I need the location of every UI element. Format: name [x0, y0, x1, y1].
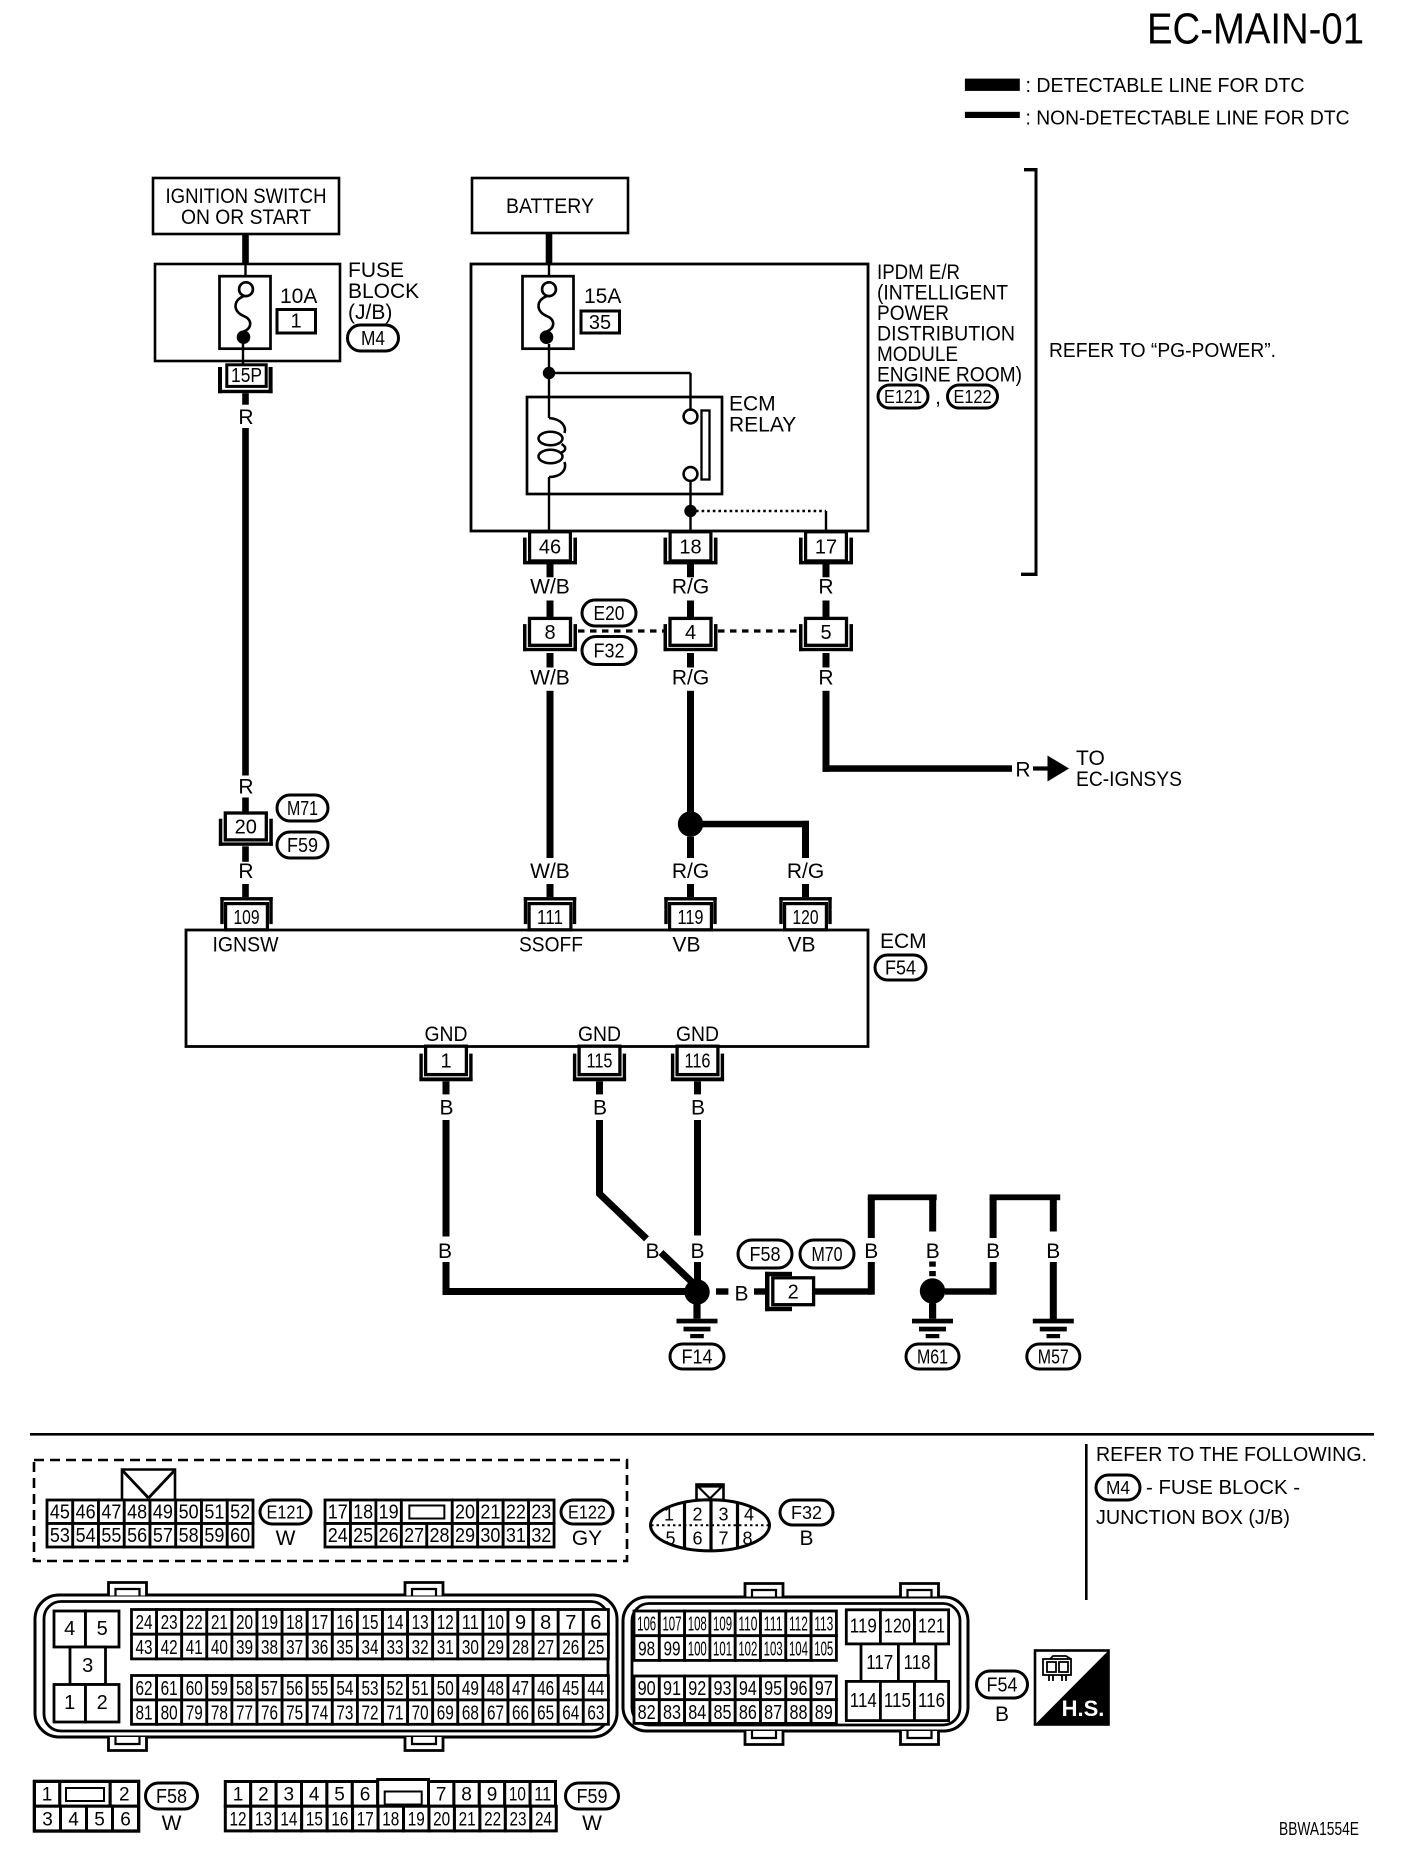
- wire loop2 right leg lower: [1050, 1262, 1057, 1319]
- svg-text:W/B: W/B: [530, 667, 570, 690]
- label GND 116: [676, 1023, 719, 1046]
- svg-text:H.S.: H.S.: [1062, 1696, 1105, 1721]
- wire R/G stub4b: [802, 884, 809, 897]
- svg-text:22: 22: [484, 1809, 501, 1830]
- svg-text:B: B: [734, 1283, 748, 1306]
- svg-text:6: 6: [360, 1785, 371, 1806]
- svg-text:F32: F32: [791, 1503, 822, 1523]
- svg-text:34: 34: [361, 1637, 378, 1659]
- svg-text:14: 14: [280, 1809, 297, 1830]
- svg-text:B: B: [690, 1240, 704, 1263]
- wire B 115 diagonal lower: [661, 1253, 695, 1286]
- label R/G row1: [672, 576, 709, 599]
- svg-text:39: 39: [236, 1637, 253, 1659]
- svg-text:17: 17: [311, 1612, 328, 1634]
- wire R stub3: [823, 653, 830, 668]
- legend detectable text: [1026, 75, 1305, 97]
- fuse 10A: [220, 276, 271, 349]
- svg-text:107: 107: [662, 1614, 681, 1636]
- svg-text:B: B: [799, 1527, 813, 1550]
- svg-text:23: 23: [531, 1501, 551, 1523]
- label FUSE BLOCK dash: [1146, 1477, 1300, 1499]
- svg-text:B: B: [926, 1240, 940, 1263]
- junction dot battery feed: [543, 367, 555, 379]
- svg-text:B: B: [438, 1240, 452, 1263]
- svg-text:97: 97: [815, 1678, 833, 1700]
- wire loop2 left leg lower: [990, 1262, 997, 1295]
- svg-text:15P: 15P: [231, 365, 262, 387]
- svg-text:59: 59: [211, 1678, 228, 1700]
- svg-text:21: 21: [459, 1809, 476, 1830]
- svg-text:50: 50: [179, 1501, 199, 1523]
- fuse number 35 box: [581, 311, 620, 334]
- connector id E122 oval: [948, 385, 998, 408]
- label 15A: [584, 285, 621, 308]
- svg-text:105: 105: [814, 1638, 833, 1660]
- svg-text:77: 77: [236, 1702, 253, 1724]
- junction dot R/G: [678, 811, 703, 836]
- label B loop1 right: [926, 1240, 940, 1263]
- label R: [238, 406, 253, 429]
- svg-text:M61: M61: [917, 1347, 948, 1369]
- svg-text:2: 2: [692, 1505, 702, 1525]
- wire ignition to fuse block: [242, 234, 249, 264]
- svg-text:94: 94: [739, 1678, 757, 1700]
- svg-text:100: 100: [688, 1638, 707, 1660]
- refer bracket: [1021, 168, 1038, 576]
- connector id E121 oval: [878, 385, 928, 408]
- svg-text:: NON-DETECTABLE LINE FOR DTC: : NON-DETECTABLE LINE FOR DTC: [1026, 108, 1350, 130]
- wire loop2 left leg upper: [990, 1197, 997, 1238]
- svg-text:E121: E121: [884, 387, 922, 407]
- svg-text:B: B: [986, 1240, 1000, 1263]
- svg-text:31: 31: [506, 1525, 526, 1547]
- svg-text:73: 73: [336, 1702, 353, 1724]
- svg-text:EC-MAIN-01: EC-MAIN-01: [1147, 5, 1364, 54]
- svg-text:47: 47: [101, 1501, 121, 1523]
- svg-text:109: 109: [234, 907, 260, 929]
- svg-text:115: 115: [587, 1051, 613, 1073]
- junction dot ground M61: [920, 1278, 945, 1303]
- svg-text:ENGINE ROOM): ENGINE ROOM): [877, 364, 1022, 387]
- wire R/G stub1: [687, 564, 694, 578]
- svg-text:10: 10: [509, 1785, 526, 1806]
- svg-text:F59: F59: [287, 835, 318, 857]
- svg-text:5: 5: [334, 1785, 345, 1806]
- svg-text:76: 76: [261, 1702, 278, 1724]
- wire loop1 right leg: [929, 1200, 936, 1232]
- svg-text:106: 106: [637, 1614, 656, 1636]
- wire R stub above 109: [242, 884, 249, 897]
- svg-text:120: 120: [793, 907, 819, 929]
- wire coil to pin 46: [548, 477, 550, 531]
- wire R horizontal to EC-IGNSYS: [823, 765, 1013, 772]
- pin 111: [524, 897, 576, 930]
- svg-text:19: 19: [261, 1612, 278, 1634]
- svg-text:55: 55: [101, 1525, 121, 1547]
- svg-text:GND: GND: [676, 1023, 719, 1046]
- svg-text:22: 22: [506, 1501, 526, 1523]
- svg-text:80: 80: [161, 1702, 178, 1724]
- svg-text:50: 50: [437, 1678, 454, 1700]
- svg-text:R/G: R/G: [672, 576, 709, 599]
- svg-text:29: 29: [455, 1525, 475, 1547]
- pin 120: [779, 897, 831, 930]
- svg-text:23: 23: [510, 1809, 527, 1830]
- connector id M57 oval: [1027, 1344, 1080, 1369]
- svg-text:VB: VB: [787, 934, 815, 957]
- wire R stub below 15P: [242, 393, 249, 405]
- svg-text:ECM: ECM: [729, 393, 776, 416]
- ECM box: [186, 930, 868, 1047]
- svg-text:REFER TO THE FOLLOWING.: REFER TO THE FOLLOWING.: [1096, 1444, 1367, 1466]
- svg-text:4: 4: [68, 1809, 79, 1830]
- svg-text:8: 8: [742, 1529, 752, 1549]
- svg-text:15A: 15A: [584, 285, 621, 308]
- label B loop2 right: [1046, 1240, 1060, 1263]
- wire B stub 1: [443, 1081, 450, 1094]
- fuse block J/B box: [155, 264, 340, 361]
- wire R/G to junction: [687, 691, 694, 817]
- svg-text:18: 18: [353, 1501, 373, 1523]
- svg-text:18: 18: [286, 1612, 303, 1634]
- svg-text:113: 113: [814, 1614, 833, 1636]
- svg-text:27: 27: [404, 1525, 424, 1547]
- svg-text:8: 8: [540, 1612, 551, 1634]
- label W F59: [582, 1812, 602, 1835]
- svg-text:26: 26: [562, 1637, 579, 1659]
- label ECM: [880, 930, 927, 953]
- wire B 1 vertical: [443, 1120, 450, 1237]
- ECM relay box: [527, 397, 722, 494]
- svg-text:9: 9: [515, 1612, 526, 1634]
- svg-text:36: 36: [311, 1637, 328, 1659]
- svg-text:19: 19: [379, 1501, 399, 1523]
- svg-text:111: 111: [764, 1614, 783, 1636]
- svg-text:R/G: R/G: [672, 667, 709, 690]
- connector id F59 oval: [277, 832, 328, 858]
- label R row1: [818, 576, 833, 599]
- svg-text:12: 12: [437, 1612, 454, 1634]
- svg-text:R: R: [1015, 759, 1030, 782]
- IPDM E/R box: [471, 264, 868, 531]
- svg-text:119: 119: [678, 907, 704, 929]
- wire R/G below junction: [687, 837, 694, 858]
- svg-text:49: 49: [462, 1678, 479, 1700]
- svg-text:28: 28: [512, 1637, 529, 1659]
- label VB 119: [672, 934, 700, 957]
- svg-text:IGNSW: IGNSW: [213, 934, 279, 957]
- wire R/G branch horizontal: [691, 821, 810, 828]
- wire into fuse 10A: [244, 264, 246, 283]
- svg-text:M71: M71: [287, 798, 318, 820]
- label R/G row3b: [787, 860, 824, 883]
- svg-text:E122: E122: [954, 387, 992, 407]
- connector id F58 oval bottom: [146, 1783, 198, 1809]
- svg-text:26: 26: [379, 1525, 399, 1547]
- svg-text:M57: M57: [1038, 1347, 1069, 1369]
- svg-text:24: 24: [136, 1612, 153, 1634]
- label IGNSW: [213, 934, 279, 957]
- svg-text:40: 40: [211, 1637, 228, 1659]
- relay armature bar: [702, 411, 710, 480]
- connector E121 key: [122, 1470, 175, 1501]
- svg-text:17: 17: [357, 1809, 374, 1830]
- label R above 109: [238, 860, 253, 883]
- ECM connector grid left upper: [132, 1610, 609, 1659]
- svg-text:F59: F59: [577, 1786, 608, 1808]
- svg-text:TO: TO: [1076, 747, 1105, 770]
- svg-text:58: 58: [236, 1678, 253, 1700]
- svg-text:46: 46: [539, 537, 561, 559]
- label B loop2 left: [986, 1240, 1000, 1263]
- relay coil: [539, 418, 566, 477]
- connector E121 pin grid: [47, 1500, 253, 1547]
- relay contact circles: [684, 410, 698, 481]
- label B col116: [691, 1097, 705, 1120]
- svg-text:10: 10: [487, 1612, 504, 1634]
- svg-text:45: 45: [562, 1678, 579, 1700]
- label R at arrow: [1015, 759, 1030, 782]
- svg-text:46: 46: [537, 1678, 554, 1700]
- connector F59 grid: [225, 1780, 556, 1831]
- connector id E121 oval bottom: [260, 1500, 311, 1524]
- label B col116 low: [690, 1240, 704, 1263]
- svg-text:57: 57: [261, 1678, 278, 1700]
- svg-text:R/G: R/G: [672, 860, 709, 883]
- svg-text:67: 67: [487, 1702, 504, 1724]
- wire W/B stub2: [547, 601, 554, 619]
- wire R/G stub2: [687, 601, 694, 619]
- wire B stub 115: [596, 1081, 603, 1094]
- wire R stub2: [823, 601, 830, 619]
- svg-text:55: 55: [311, 1678, 328, 1700]
- svg-text:W: W: [582, 1812, 602, 1835]
- connector id F58 oval: [738, 1240, 792, 1268]
- svg-text:75: 75: [286, 1702, 303, 1724]
- svg-text:121: 121: [918, 1616, 945, 1638]
- label W/B row1: [530, 576, 570, 599]
- svg-text:53: 53: [50, 1525, 70, 1547]
- svg-text:FUSE: FUSE: [348, 259, 404, 282]
- svg-text:13: 13: [255, 1809, 272, 1830]
- svg-text:8: 8: [461, 1785, 472, 1806]
- ECM connector outer shell left: [35, 1595, 617, 1737]
- svg-text:10A: 10A: [280, 285, 317, 308]
- svg-text:91: 91: [663, 1678, 681, 1700]
- svg-text:6: 6: [120, 1809, 131, 1830]
- wire fuse 15A to relay coil: [548, 344, 550, 418]
- svg-text:35: 35: [336, 1637, 353, 1659]
- ECM connector grid right upper: [634, 1611, 836, 1660]
- svg-text:111: 111: [537, 907, 563, 929]
- wire R stub1: [823, 564, 830, 578]
- svg-text:52: 52: [230, 1501, 250, 1523]
- dotted wire to pin 17: [696, 511, 826, 531]
- label VB 120: [787, 934, 815, 957]
- pin 18: [664, 532, 718, 565]
- svg-text:37: 37: [286, 1637, 303, 1659]
- wire W/B stub3: [547, 653, 554, 668]
- svg-text:35: 35: [589, 312, 611, 334]
- svg-text:W: W: [276, 1527, 296, 1550]
- svg-text:23: 23: [161, 1612, 178, 1634]
- connector id M61 oval: [906, 1344, 959, 1369]
- svg-text:16: 16: [336, 1612, 353, 1634]
- svg-text:27: 27: [537, 1637, 554, 1659]
- connector 2: [765, 1272, 814, 1311]
- svg-text:4: 4: [64, 1618, 75, 1640]
- ECM connector bottom tabs: [109, 1731, 939, 1751]
- svg-text:ON OR START: ON OR START: [181, 206, 311, 229]
- svg-text:11: 11: [534, 1785, 551, 1806]
- svg-text:120: 120: [884, 1616, 911, 1638]
- svg-text:85: 85: [714, 1702, 732, 1724]
- svg-text:114: 114: [850, 1690, 877, 1712]
- svg-text:47: 47: [512, 1678, 529, 1700]
- svg-text:F54: F54: [987, 1675, 1018, 1697]
- connector id F32 oval: [582, 637, 636, 665]
- connector F32 key: [697, 1485, 724, 1501]
- svg-text:63: 63: [587, 1702, 604, 1724]
- ECM connector top tabs: [109, 1583, 939, 1597]
- svg-text:GND: GND: [578, 1023, 621, 1046]
- label SSOFF: [519, 934, 583, 957]
- svg-text:6: 6: [692, 1529, 702, 1549]
- connector id M4 oval following: [1096, 1475, 1140, 1500]
- svg-text:112: 112: [789, 1614, 808, 1636]
- separator line: [30, 1433, 1374, 1436]
- svg-text:W: W: [162, 1812, 182, 1835]
- wire M61 to loop2: [945, 1288, 993, 1294]
- svg-text:R: R: [818, 576, 833, 599]
- svg-text:90: 90: [638, 1678, 656, 1700]
- svg-text:1: 1: [440, 1051, 451, 1073]
- svg-text:BBWA1554E: BBWA1554E: [1279, 1819, 1359, 1839]
- svg-text:IGNITION SWITCH: IGNITION SWITCH: [166, 185, 327, 208]
- svg-text:93: 93: [714, 1678, 732, 1700]
- svg-text:B: B: [864, 1240, 878, 1263]
- svg-text:6: 6: [590, 1612, 601, 1634]
- pin 17: [799, 532, 853, 565]
- label GY E122: [572, 1527, 602, 1550]
- drawing number BBWA1554E: [1279, 1819, 1359, 1839]
- connector id E122 oval bottom: [561, 1500, 613, 1524]
- svg-text:20: 20: [455, 1501, 475, 1523]
- svg-text:5: 5: [820, 622, 831, 644]
- connector E122 pin grid: [325, 1500, 554, 1547]
- svg-text:22: 22: [186, 1612, 203, 1634]
- connector F32 round grid: [651, 1500, 770, 1551]
- svg-text:4: 4: [685, 622, 696, 644]
- legend non-detectable text: [1026, 108, 1350, 130]
- junction dot ground F14: [684, 1279, 709, 1304]
- svg-text:104: 104: [789, 1638, 808, 1660]
- svg-text:79: 79: [186, 1702, 203, 1724]
- svg-text:58: 58: [179, 1525, 199, 1547]
- wire connector 2 to loop: [814, 1288, 872, 1294]
- svg-text:F58: F58: [750, 1244, 781, 1266]
- pin 1: [419, 1046, 472, 1081]
- connector 5: [799, 618, 853, 651]
- svg-text:24: 24: [535, 1809, 552, 1830]
- svg-text:72: 72: [361, 1702, 378, 1724]
- svg-text:B: B: [995, 1703, 1009, 1726]
- legend detectable line sample: [965, 79, 1020, 91]
- svg-text:64: 64: [562, 1702, 579, 1724]
- connector 8: [523, 618, 577, 651]
- svg-text:15: 15: [306, 1809, 323, 1830]
- svg-text:2: 2: [97, 1692, 108, 1714]
- svg-text:3: 3: [42, 1809, 53, 1830]
- svg-text:(J/B): (J/B): [348, 301, 392, 324]
- comma separator: [935, 386, 941, 409]
- svg-text:RELAY: RELAY: [729, 414, 796, 437]
- svg-text:7: 7: [565, 1612, 576, 1634]
- svg-text:14: 14: [387, 1612, 404, 1634]
- svg-text:71: 71: [387, 1702, 404, 1724]
- wire B 115 vertical and diagonal: [600, 1120, 647, 1239]
- svg-text:74: 74: [311, 1702, 328, 1724]
- svg-text:B: B: [1046, 1240, 1060, 1263]
- label B diag: [645, 1240, 659, 1263]
- svg-text:E122: E122: [568, 1502, 606, 1522]
- wire loop1 left leg lower: [868, 1262, 875, 1295]
- svg-text:B: B: [593, 1097, 607, 1120]
- svg-text:101: 101: [713, 1638, 732, 1660]
- svg-text:8: 8: [544, 622, 555, 644]
- connector id F32 oval bottom: [780, 1500, 833, 1525]
- dashed harness line 8-4: [578, 629, 664, 632]
- wire R down: [823, 691, 830, 772]
- svg-text:19: 19: [408, 1809, 425, 1830]
- wire dashes above M61 dot: [929, 1262, 936, 1277]
- svg-text:,: ,: [935, 386, 941, 409]
- wire M61 dot to ground: [929, 1304, 936, 1319]
- svg-text:1: 1: [64, 1692, 75, 1714]
- label GND 115: [578, 1023, 621, 1046]
- label B col115: [593, 1097, 607, 1120]
- svg-text:B: B: [645, 1240, 659, 1263]
- label B F32: [799, 1527, 813, 1550]
- connector id F54 oval bottom: [977, 1671, 1028, 1698]
- svg-text:21: 21: [211, 1612, 228, 1634]
- fuse 15A: [523, 276, 574, 349]
- svg-text:2: 2: [119, 1785, 130, 1806]
- svg-text:25: 25: [587, 1637, 604, 1659]
- svg-text:56: 56: [127, 1525, 147, 1547]
- svg-text:SSOFF: SSOFF: [519, 934, 583, 957]
- wire B 1 corner: [446, 1262, 688, 1292]
- svg-text:M4: M4: [1106, 1478, 1130, 1498]
- svg-text:BLOCK: BLOCK: [348, 280, 419, 303]
- label R/G row3: [672, 860, 709, 883]
- label 10A: [280, 285, 317, 308]
- connector id M4 oval: [348, 325, 399, 351]
- wire relay contact to pin 18: [689, 481, 691, 531]
- svg-text:2: 2: [258, 1785, 269, 1806]
- connector 4: [664, 618, 718, 651]
- label REFER TO THE FOLLOWING: [1096, 1444, 1367, 1466]
- svg-text:9: 9: [487, 1785, 498, 1806]
- label W E121: [276, 1527, 296, 1550]
- svg-text:W/B: W/B: [530, 576, 570, 599]
- svg-text:18: 18: [679, 537, 701, 559]
- svg-text:1: 1: [290, 311, 301, 333]
- svg-text:61: 61: [161, 1678, 178, 1700]
- label B loop1 left: [864, 1240, 878, 1263]
- svg-text:ECM: ECM: [880, 930, 927, 953]
